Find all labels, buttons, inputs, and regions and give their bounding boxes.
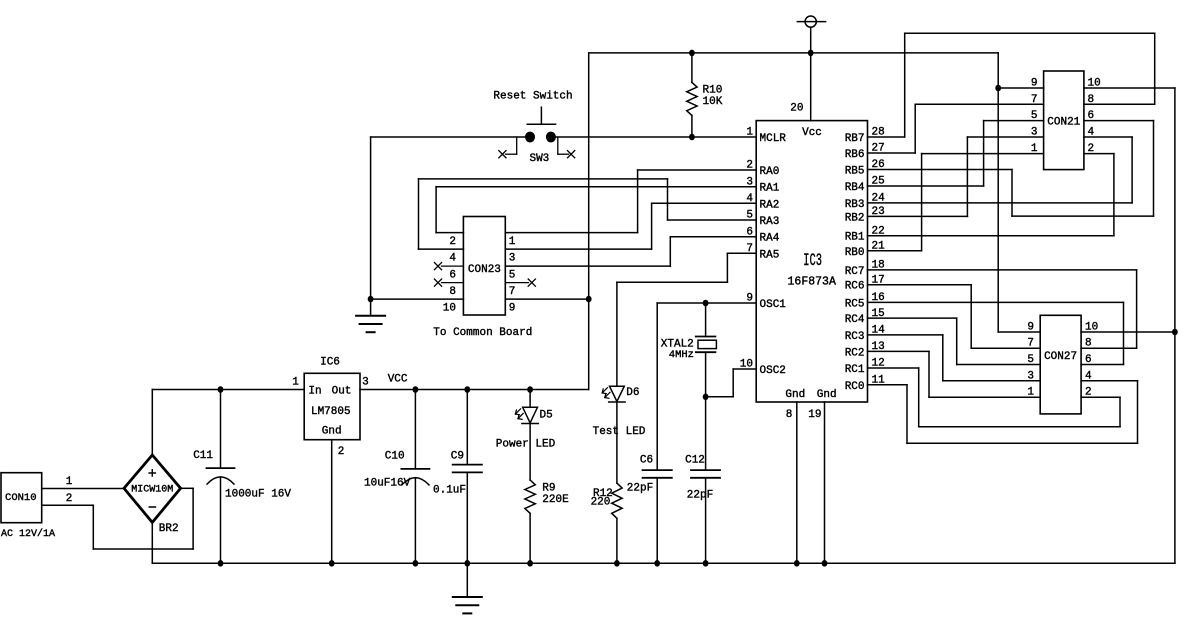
svg-text:+: +: [148, 466, 157, 483]
svg-text:RA1: RA1: [760, 183, 780, 195]
svg-text:Gnd: Gnd: [817, 389, 837, 401]
svg-text:10uF16V: 10uF16V: [364, 477, 411, 489]
svg-text:220E: 220E: [542, 494, 569, 506]
svg-text:C10: C10: [385, 450, 405, 462]
svg-text:6: 6: [1085, 354, 1092, 366]
svg-text:9: 9: [509, 303, 516, 315]
svg-text:MICW10M: MICW10M: [131, 484, 173, 495]
svg-text:22pF: 22pF: [627, 483, 653, 495]
svg-text:19: 19: [808, 409, 821, 421]
svg-text:LM7805: LM7805: [311, 406, 351, 418]
svg-text:10: 10: [1085, 322, 1098, 334]
svg-text:Out: Out: [332, 386, 352, 398]
svg-text:20: 20: [790, 103, 803, 115]
svg-text:10K: 10K: [703, 96, 723, 108]
svg-text:4: 4: [1085, 370, 1092, 382]
svg-text:RC7: RC7: [845, 266, 865, 278]
svg-text:10: 10: [1088, 78, 1101, 90]
svg-text:D5: D5: [540, 409, 553, 421]
svg-text:4: 4: [449, 253, 456, 265]
svg-text:RB2: RB2: [845, 212, 865, 224]
svg-text:1: 1: [292, 376, 299, 388]
svg-text:To Common Board: To Common Board: [433, 327, 532, 339]
svg-text:2: 2: [66, 493, 73, 505]
svg-text:22pF: 22pF: [687, 490, 713, 502]
svg-text:Test LED: Test LED: [593, 426, 646, 438]
svg-text:9: 9: [1031, 78, 1038, 90]
svg-text:VCC: VCC: [388, 374, 408, 386]
svg-text:6: 6: [1088, 110, 1095, 122]
svg-text:16F873A: 16F873A: [788, 276, 836, 289]
svg-text:7: 7: [1027, 338, 1034, 350]
svg-text:3: 3: [1031, 127, 1038, 139]
svg-text:RC0: RC0: [845, 381, 865, 393]
svg-text:7: 7: [509, 286, 516, 298]
svg-text:8: 8: [786, 409, 793, 421]
svg-text:RC2: RC2: [845, 347, 865, 359]
svg-text:MCLR: MCLR: [760, 133, 787, 145]
svg-text:2: 2: [338, 446, 345, 458]
svg-text:4: 4: [1088, 127, 1095, 139]
svg-text:1: 1: [66, 476, 73, 488]
svg-text:1: 1: [509, 236, 516, 248]
svg-text:C11: C11: [193, 450, 213, 462]
svg-text:3: 3: [362, 376, 369, 388]
svg-text:8: 8: [1088, 94, 1095, 106]
svg-text:RC3: RC3: [845, 331, 865, 343]
svg-text:D6: D6: [626, 387, 639, 399]
svg-text:RC1: RC1: [845, 364, 865, 376]
svg-text:2: 2: [1085, 387, 1092, 399]
svg-text:1: 1: [1031, 143, 1038, 155]
svg-text:OSC2: OSC2: [760, 365, 786, 377]
svg-text:RB6: RB6: [845, 149, 865, 161]
svg-text:R10: R10: [703, 84, 723, 96]
svg-text:SW3: SW3: [529, 153, 549, 165]
svg-text:−: −: [148, 500, 157, 517]
svg-text:AC 12V/1A: AC 12V/1A: [1, 528, 55, 540]
svg-text:1000uF 16V: 1000uF 16V: [225, 488, 291, 500]
svg-text:RB3: RB3: [845, 199, 865, 211]
svg-text:In: In: [308, 386, 321, 398]
svg-text:5: 5: [1027, 354, 1034, 366]
svg-text:2: 2: [1088, 143, 1095, 155]
svg-text:C12: C12: [685, 454, 705, 466]
svg-text:10: 10: [443, 303, 456, 315]
svg-text:BR2: BR2: [159, 523, 179, 535]
svg-text:Gnd: Gnd: [785, 389, 805, 401]
svg-text:4MHz: 4MHz: [669, 349, 694, 361]
svg-text:8: 8: [1085, 338, 1092, 350]
svg-text:IC6: IC6: [320, 356, 340, 368]
svg-text:6: 6: [449, 270, 456, 282]
svg-text:RB0: RB0: [845, 247, 865, 259]
svg-text:RB5: RB5: [845, 166, 865, 178]
svg-text:7: 7: [1031, 94, 1038, 106]
svg-text:2: 2: [449, 236, 456, 248]
svg-text:RB1: RB1: [845, 232, 865, 244]
svg-text:RA0: RA0: [760, 166, 780, 178]
svg-text:220: 220: [591, 497, 611, 509]
svg-text:CON23: CON23: [468, 264, 501, 276]
svg-text:C6: C6: [640, 454, 653, 466]
svg-text:IC3: IC3: [803, 252, 822, 272]
svg-text:RC5: RC5: [845, 298, 865, 310]
svg-text:Reset Switch: Reset Switch: [493, 90, 572, 102]
svg-text:9: 9: [1027, 322, 1034, 334]
svg-text:0.1uF: 0.1uF: [433, 485, 466, 497]
svg-text:RA2: RA2: [760, 199, 780, 211]
svg-text:Gnd: Gnd: [322, 426, 342, 438]
svg-text:5: 5: [509, 270, 516, 282]
svg-text:1: 1: [746, 127, 753, 139]
svg-text:3: 3: [509, 253, 516, 265]
svg-text:1: 1: [1027, 387, 1034, 399]
svg-text:OSC1: OSC1: [760, 299, 787, 311]
svg-text:C9: C9: [451, 450, 464, 462]
svg-text:RA5: RA5: [760, 249, 780, 261]
svg-text:RC6: RC6: [845, 281, 865, 293]
svg-text:RB4: RB4: [845, 182, 865, 194]
svg-text:Power LED: Power LED: [496, 439, 556, 451]
svg-text:CON10: CON10: [5, 492, 37, 504]
svg-text:8: 8: [449, 286, 456, 298]
svg-text:RB7: RB7: [845, 133, 865, 145]
svg-text:RA4: RA4: [760, 233, 780, 245]
svg-text:Vcc: Vcc: [802, 127, 822, 139]
svg-text:3: 3: [1027, 370, 1034, 382]
svg-text:RA3: RA3: [760, 216, 780, 228]
svg-text:CON27: CON27: [1044, 351, 1077, 363]
svg-text:RC4: RC4: [845, 314, 865, 326]
svg-text:5: 5: [1031, 110, 1038, 122]
svg-text:CON21: CON21: [1047, 117, 1080, 129]
